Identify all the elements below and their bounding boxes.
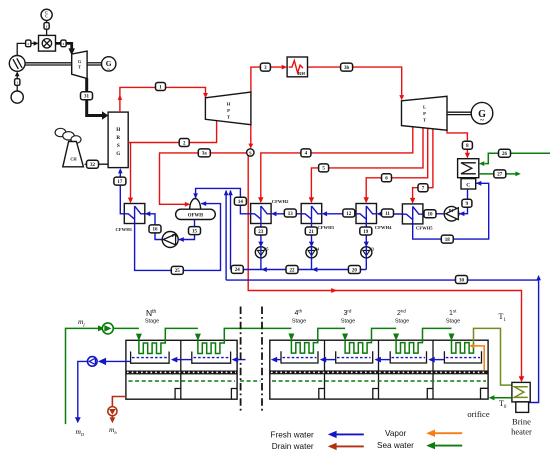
svg-text:CH: CH (70, 157, 77, 162)
svg-text:T: T (423, 118, 426, 123)
svg-text:orifice: orifice (467, 409, 489, 419)
svg-text:Drain water: Drain water (272, 442, 314, 451)
svg-text:P5: P5 (264, 247, 268, 252)
svg-text:25: 25 (175, 269, 181, 274)
svg-text:C: C (466, 182, 470, 188)
svg-text:Fresh water: Fresh water (271, 430, 314, 439)
svg-text:1: 1 (16, 81, 18, 85)
svg-text:12: 12 (346, 212, 352, 217)
svg-text:26: 26 (502, 152, 508, 157)
svg-text:3b: 3b (344, 66, 350, 71)
svg-text:23: 23 (258, 230, 264, 235)
svg-text:P4: P4 (315, 247, 319, 252)
svg-text:15: 15 (192, 229, 198, 234)
svg-text:31: 31 (84, 95, 90, 100)
svg-text:Sea water: Sea water (377, 441, 414, 450)
svg-text:11: 11 (385, 212, 390, 217)
svg-text:22: 22 (290, 268, 296, 273)
svg-text:2: 2 (27, 42, 29, 46)
svg-text:CFWH2: CFWH2 (272, 199, 289, 204)
svg-text:Stage: Stage (145, 319, 159, 325)
svg-text:3: 3 (63, 42, 65, 46)
svg-text:C: C (45, 15, 48, 19)
svg-text:27: 27 (497, 173, 503, 178)
svg-text:T: T (78, 65, 81, 70)
svg-text:Stage: Stage (292, 319, 306, 325)
svg-text:H: H (227, 102, 231, 107)
svg-text:3a: 3a (202, 152, 208, 157)
svg-text:Stage: Stage (395, 319, 409, 325)
svg-text:13: 13 (288, 212, 294, 217)
svg-text:CFWH1: CFWH1 (116, 227, 133, 232)
svg-text:P: P (423, 111, 426, 116)
svg-text:19: 19 (363, 230, 369, 235)
svg-text:30: 30 (459, 278, 465, 283)
svg-text:14: 14 (238, 200, 244, 205)
svg-text:G: G (116, 151, 120, 157)
svg-text:heater: heater (511, 427, 532, 437)
svg-text:RH: RH (298, 71, 305, 76)
svg-text:CFWH3: CFWH3 (317, 225, 334, 230)
svg-text:P3: P3 (369, 247, 373, 252)
svg-text:H: H (116, 127, 120, 133)
svg-text:20: 20 (352, 268, 358, 273)
svg-text:~: ~ (480, 117, 484, 125)
svg-text:~: ~ (107, 67, 110, 73)
svg-text:Stage: Stage (341, 319, 355, 325)
svg-text:10: 10 (428, 213, 434, 218)
svg-text:P1: P1 (449, 208, 454, 213)
svg-text:Vapor: Vapor (385, 429, 407, 438)
svg-text:L: L (423, 105, 426, 110)
svg-text:P2: P2 (172, 233, 178, 238)
svg-text:32: 32 (90, 163, 96, 168)
svg-text:Stage: Stage (446, 319, 460, 325)
svg-text:S: S (117, 143, 120, 149)
svg-text:P: P (227, 108, 230, 113)
svg-text:CFWH4: CFWH4 (375, 225, 392, 230)
svg-text:R: R (116, 135, 120, 141)
svg-text:Brine: Brine (512, 417, 531, 427)
svg-text:17: 17 (117, 180, 123, 185)
svg-text:16: 16 (153, 228, 159, 233)
svg-text:CFWH5: CFWH5 (416, 226, 433, 231)
svg-text:18: 18 (445, 238, 451, 243)
svg-text:T: T (227, 115, 230, 120)
svg-text:21: 21 (309, 230, 315, 235)
svg-text:OFWH: OFWH (188, 213, 203, 218)
svg-text:24: 24 (235, 268, 241, 273)
